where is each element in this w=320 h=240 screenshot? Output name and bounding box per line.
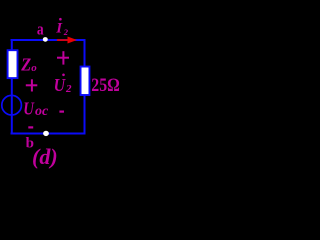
svg-text:2: 2 bbox=[63, 27, 69, 37]
svg-text:2: 2 bbox=[65, 83, 72, 95]
node a (junction dot) bbox=[43, 37, 48, 42]
label - (source polarity) bbox=[28, 126, 33, 128]
svg-text:o: o bbox=[31, 62, 37, 74]
label - (U2 polarity) bbox=[59, 110, 64, 112]
current arrow I2 (red) bbox=[57, 37, 77, 44]
svg-text:oc: oc bbox=[35, 104, 49, 119]
wire left vertical bbox=[11, 39, 13, 134]
svg-text:(d): (d) bbox=[32, 144, 58, 169]
svg-text:25Ω: 25Ω bbox=[91, 75, 120, 96]
wire top (node a rail) bbox=[11, 39, 86, 41]
svg-text:I: I bbox=[55, 21, 63, 37]
wire right vertical bbox=[84, 39, 86, 135]
resistor 25 ohm (rectangle body) bbox=[81, 67, 90, 95]
label + (U2 polarity) bbox=[57, 51, 69, 64]
node b (junction dot) bbox=[43, 131, 49, 136]
wire bottom (node b rail) bbox=[11, 133, 86, 135]
svg-text:Z: Z bbox=[20, 55, 31, 75]
svg-text:U: U bbox=[54, 75, 66, 95]
voltage source U_oc (circle) bbox=[2, 95, 22, 115]
svg-text:U: U bbox=[23, 98, 35, 119]
label + (source polarity) bbox=[26, 79, 38, 91]
impedance Z0 (rectangle body) bbox=[8, 50, 18, 78]
svg-text:a: a bbox=[37, 20, 44, 39]
